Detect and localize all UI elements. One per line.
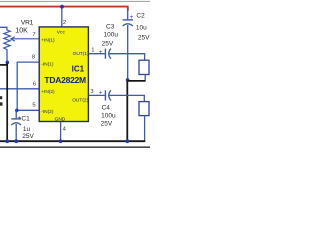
svg-text:6: 6 [33, 82, 36, 88]
node C1/ground rail [14, 139, 18, 143]
svg-text:1: 1 [91, 47, 94, 53]
wire pin2 Vcc drop [61, 7, 63, 27]
svg-text:10u: 10u [136, 24, 147, 31]
speaker LS2 bottom lead [144, 116, 146, 141]
svg-text:-IN(2): -IN(2) [41, 109, 54, 115]
black wire ground drop vertical [126, 81, 128, 141]
wire C3 to speaker LS1 [109, 53, 145, 55]
capacitor C2 plates [123, 19, 133, 21]
wire pin 1 out [88, 53, 104, 55]
svg-text:1u: 1u [23, 126, 31, 133]
jack ground horizontal (black) [0, 64, 7, 66]
wire C2 lead lower [127, 25, 129, 79]
svg-text:TDA2822M: TDA2822M [44, 75, 86, 85]
wire pin 6 input [0, 88, 40, 90]
svg-text:7: 7 [32, 32, 35, 38]
wire pin 8 [17, 61, 40, 63]
svg-text:25V: 25V [22, 133, 34, 140]
speaker LS2 top lead [143, 95, 145, 101]
svg-text:3: 3 [90, 89, 93, 95]
speaker LS1 body [139, 60, 149, 74]
svg-text:25V: 25V [101, 120, 113, 127]
capacitor C1 bottom lead [15, 124, 17, 141]
jack cropped text marks [0, 96, 2, 99]
svg-text:C4: C4 [102, 104, 111, 111]
wire input bus vertical [16, 62, 18, 110]
black wire speaker1 return horizontal [128, 80, 146, 82]
svg-text:25V: 25V [138, 34, 150, 41]
svg-text:5: 5 [32, 103, 35, 109]
speaker LS1 top lead [144, 54, 146, 61]
svg-text:2: 2 [63, 20, 66, 26]
svg-text:Vcc: Vcc [57, 29, 66, 35]
node Vcc rail junction [60, 5, 64, 9]
svg-text:+: + [99, 49, 103, 56]
wire pin 5 [17, 109, 40, 111]
svg-text:8: 8 [32, 54, 35, 60]
node pin4/ground rail [59, 139, 63, 143]
svg-text:IC1: IC1 [72, 65, 85, 74]
node C2/speaker return junction [126, 78, 130, 82]
svg-text:25V: 25V [102, 41, 114, 48]
svg-text:+IN(1): +IN(1) [41, 38, 55, 44]
wire pin 4 GND drop [60, 122, 62, 142]
wire input entry to VR1 top [0, 27, 7, 30]
capacitor C2 lead upper [127, 9, 129, 19]
svg-text:OUT(2): OUT(2) [72, 98, 88, 104]
node jack/ground rail [5, 139, 9, 143]
svg-text:+IN(2): +IN(2) [41, 89, 55, 95]
svg-text:+: + [130, 14, 134, 21]
svg-text:C2: C2 [136, 13, 145, 20]
wire C4 to speaker LS2 [109, 94, 144, 96]
svg-text:+: + [99, 90, 103, 97]
wire pin 7 from wiper [12, 38, 40, 40]
svg-text:10K: 10K [15, 27, 28, 34]
capacitor C4 plates [104, 90, 106, 100]
capacitor C3 plates [104, 49, 106, 59]
node VR1/jack/pin8 junction [6, 61, 10, 65]
speaker LS1 bottom lead [144, 75, 146, 81]
capacitor C1 top lead [15, 110, 17, 118]
svg-text:C1: C1 [21, 116, 30, 123]
V+ rail (red) [0, 7, 129, 11]
IC IC1 TDA2822M body [39, 27, 88, 122]
svg-text:C3: C3 [106, 24, 115, 31]
wire pin 3 out [88, 94, 104, 96]
speaker LS2 body [139, 102, 149, 116]
potentiometer VR1 wiper arrow [11, 37, 15, 41]
ground rail (black) [0, 140, 145, 142]
jack ground vertical (black) [6, 63, 8, 141]
svg-text:OUT(1): OUT(1) [73, 51, 89, 57]
node pin5/C1 junction [15, 109, 19, 113]
wire VR1 bottom lead [6, 49, 8, 62]
svg-text:-IN(1): -IN(1) [41, 61, 54, 67]
svg-text:100u: 100u [101, 113, 116, 120]
node black drop/ground rail [125, 139, 129, 143]
capacitor C1 plates [11, 118, 21, 120]
svg-text:100u: 100u [104, 31, 119, 38]
potentiometer VR1 zigzag [4, 30, 10, 50]
svg-text:VR1: VR1 [21, 19, 34, 26]
